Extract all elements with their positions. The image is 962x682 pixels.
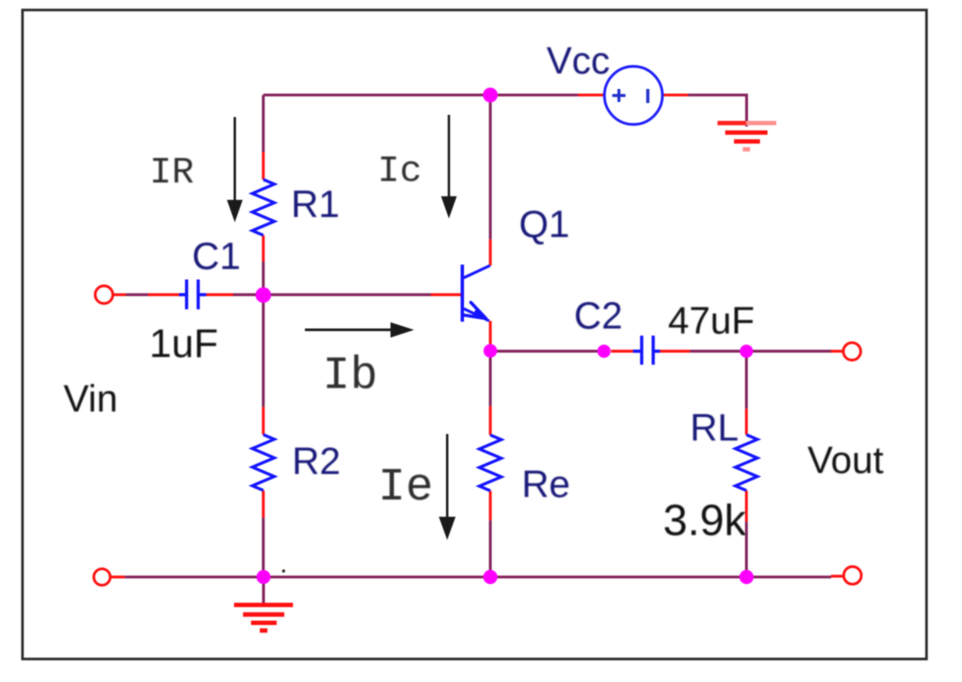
svg-text:Vout: Vout: [808, 440, 885, 482]
svg-text:Vin: Vin: [64, 379, 118, 421]
wire Vout node to terminal: [746, 350, 831, 353]
wire bottom-right terminal red pin: [831, 575, 844, 578]
svg-text:Ic: Ic: [378, 151, 422, 193]
wire RL bottom red pin: [745, 491, 748, 522]
wire collector branch maroon: [489, 95, 492, 239]
svg-text:C1: C1: [192, 236, 241, 278]
wire R2 to bottom rail: [262, 518, 265, 577]
wire emitter node to C2 dot: [490, 350, 604, 353]
wire node B down to R2: [262, 295, 265, 407]
svg-text:Vcc: Vcc: [547, 41, 610, 83]
wire C1 left red pin: [148, 293, 179, 296]
stray dot mark: [282, 569, 285, 572]
svg-text:47uF: 47uF: [668, 301, 755, 343]
arrow Ib: [305, 322, 414, 337]
svg-text:Re: Re: [522, 464, 571, 506]
node dot B (C1/R1/R2/base): [255, 287, 271, 303]
voltage source Vcc: [604, 66, 662, 124]
wire C2 to Vout node: [690, 350, 746, 353]
wire RL top red pin: [745, 409, 748, 435]
wire C2 right red pin: [660, 350, 690, 353]
wire R1 top red pin: [262, 152, 265, 180]
svg-text:IR: IR: [150, 153, 194, 195]
wire R1 bottom red pin: [262, 235, 265, 261]
wire Vout terminal red pin: [831, 350, 842, 353]
node dot RL bottom: [739, 570, 753, 584]
node dot C2 left: [597, 345, 610, 358]
ground top-right: [718, 123, 777, 149]
wire Vin to C1: [126, 293, 148, 296]
wire R2 bottom red pin: [262, 490, 265, 517]
node dot Re bottom: [483, 570, 497, 584]
resistor R2: [252, 435, 274, 491]
svg-text:R1: R1: [291, 184, 340, 226]
node dot Vout top: [740, 345, 753, 358]
wire Q1 emitter red pin: [489, 321, 492, 344]
wire C2 left red pin: [611, 350, 633, 353]
svg-text:1uF: 1uF: [149, 322, 218, 366]
wire C1 to node B: [233, 293, 263, 296]
wire node B to Q1 base: [263, 293, 431, 296]
node dot ground rail: [257, 570, 271, 584]
resistor Re: [479, 435, 501, 491]
terminal Vin top: [95, 286, 113, 304]
wire RL to bottom rail: [745, 522, 748, 577]
arrow Ic: [441, 115, 457, 219]
wire R2 top red pin: [262, 407, 265, 435]
wire Q1 base red pin: [431, 293, 462, 296]
wire left branch vertical maroon upper: [262, 95, 265, 152]
wire Q1 collector red pin: [489, 239, 492, 265]
capacitor C2: [633, 336, 660, 365]
wire R1 to node B: [262, 262, 265, 295]
arrow Ie: [439, 434, 456, 540]
wire Vcc left red pin: [578, 94, 604, 97]
wire Re top red pin: [489, 406, 492, 435]
terminal bottom-right: [844, 567, 862, 585]
arrow IR: [227, 117, 243, 222]
wire top rail left segment: [263, 94, 578, 97]
ground bottom: [234, 577, 293, 631]
svg-text:RL: RL: [690, 408, 739, 450]
wire bottom-left terminal red pin: [111, 576, 125, 579]
wire Vcc right red pin: [662, 94, 688, 97]
wire Vin terminal red pin: [114, 293, 127, 296]
svg-text:Ie: Ie: [378, 462, 433, 514]
svg-text:Q1: Q1: [519, 204, 570, 246]
resistor RL: [735, 435, 757, 491]
capacitor C1: [179, 280, 206, 310]
svg-text:3.9k: 3.9k: [663, 496, 747, 545]
terminal Vout top-right: [843, 343, 860, 360]
wire emitter down to Re: [489, 351, 492, 406]
node dot top rail / collector junction: [483, 88, 498, 103]
svg-text:Ib: Ib: [323, 350, 378, 402]
terminal bottom-left: [94, 569, 110, 585]
svg-text:R2: R2: [292, 441, 341, 483]
wire RL branch maroon upper: [745, 351, 748, 409]
node dot emitter: [484, 344, 498, 358]
wire bottom rail: [125, 576, 831, 579]
transistor Q1: [462, 265, 490, 322]
wire Re to bottom rail: [489, 520, 492, 577]
wire C1 right red pin: [206, 293, 233, 296]
resistor R1: [252, 180, 274, 236]
wire Re bottom red pin: [489, 491, 492, 520]
svg-text:C2: C2: [574, 296, 623, 338]
wire top rail right to ground corner: [688, 95, 747, 127]
